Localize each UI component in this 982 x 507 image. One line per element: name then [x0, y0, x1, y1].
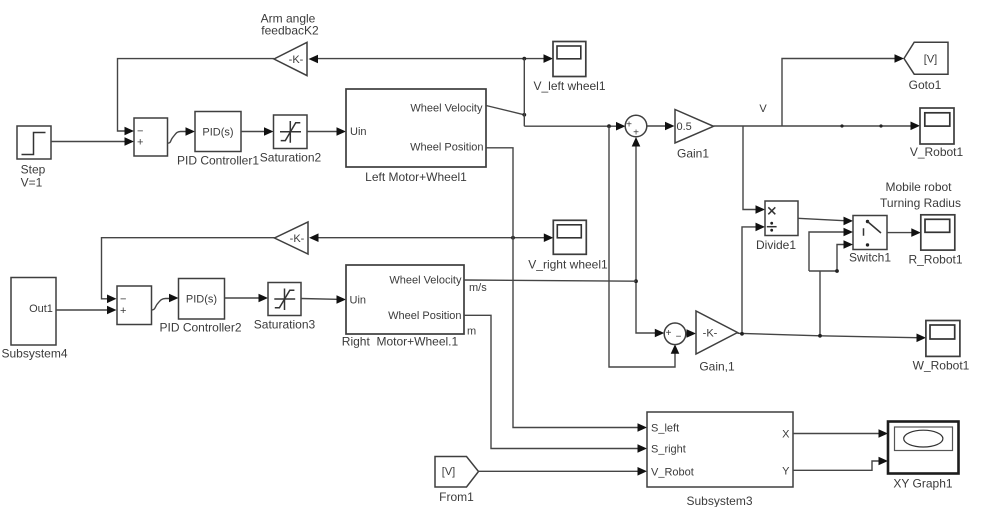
wire W line from Gain,1 to W_Robot1 [738, 333, 918, 337]
svg-text:−: − [676, 332, 682, 343]
step source Step [17, 126, 51, 190]
wire Saturation2 to Left Motor Uin [307, 131, 337, 133]
wire long vertical x609 down to lower sum bottom input [609, 126, 675, 367]
svg-text:Step: Step [21, 163, 46, 177]
gain feedback K3 (right row) [275, 222, 309, 254]
svg-text:[V]: [V] [442, 466, 455, 478]
svg-text:Uin: Uin [350, 295, 367, 307]
arrowhead into Sum2 plus input [107, 306, 117, 315]
arrowhead into gain K3 (pointing left) [309, 233, 319, 242]
svg-text:From1: From1 [439, 490, 474, 504]
svg-text:Wheel Velocity: Wheel Velocity [389, 275, 462, 287]
wire from branch dot to gain K3 [319, 237, 514, 239]
svg-text:−: − [120, 293, 126, 305]
arrowhead into V_Robot1 [911, 122, 921, 131]
wire vertical branch at x524 [523, 59, 525, 127]
wire Sum to Gain1 [647, 125, 665, 127]
svg-text:S_right: S_right [651, 444, 686, 456]
svg-text:Turning Radius: Turning Radius [880, 196, 961, 210]
goto tag Goto1 [904, 42, 948, 92]
wire PID Controller1 to Saturation2 [241, 131, 265, 133]
svg-text:Uin: Uin [350, 126, 367, 138]
subsystem Left Motor+Wheel1 [346, 89, 486, 184]
arrowhead into Sum2 minus input [107, 295, 117, 304]
svg-text:W_Robot1: W_Robot1 [913, 359, 970, 373]
xy graph XY Graph1 [888, 422, 959, 491]
wire V branch up to Goto1 [782, 59, 895, 127]
wire Sum circle bottom input vertical x636 from m/s line [636, 147, 656, 334]
arrowhead into Switch1 input 1 [844, 217, 854, 226]
arrowhead into Gain1 [665, 122, 675, 131]
svg-text:Out1: Out1 [29, 303, 53, 315]
svg-text:Saturation2: Saturation2 [260, 151, 322, 165]
wire Out1 to Sum2 plus input [56, 309, 108, 311]
wire top feedback line from branch dot to gain feedbacK2 [318, 58, 524, 60]
saturation Saturation3 [254, 283, 316, 332]
arrowhead into lower sum circle left input [655, 329, 665, 338]
wire Right Motor Wheel Position down to S_right [464, 315, 638, 448]
wire Wheel Velocity diagonal from Left Motor to branch [486, 106, 524, 115]
arrowhead into S_left [638, 423, 648, 432]
subsystem Subsystem3 [647, 412, 793, 507]
arrowhead up into lower Sum circle bottom [671, 344, 680, 354]
junction dot W at x820 [818, 334, 822, 338]
arrowhead into R_Robot1 [911, 228, 921, 237]
wire branch to V_right wheel1 scope [513, 237, 544, 239]
svg-text:Gain,1: Gain,1 [699, 360, 735, 374]
svg-text:Gain1: Gain1 [677, 147, 709, 161]
arrowhead into Switch1 input 3 [844, 240, 854, 249]
wire From1 to V_Robot input [479, 470, 639, 472]
junction dot m/s meets x636 [634, 279, 638, 283]
arrowhead into Sum circle left input [616, 122, 626, 131]
sum circle Sum3 (W difference) [664, 323, 686, 345]
wire feedback from gain K3 to Sum2 minus input [102, 238, 275, 299]
svg-text:+: + [633, 128, 639, 139]
arrowhead into Sum1 plus input [125, 137, 135, 146]
svg-text:PID(s): PID(s) [186, 293, 217, 305]
wire PID Controller2 to Saturation3 [225, 297, 260, 299]
svg-text:S_left: S_left [651, 423, 679, 435]
wire W branch up to Divide divide input [742, 227, 756, 334]
gain Gain,1 [696, 311, 738, 374]
svg-text:+: + [137, 137, 143, 149]
arrowhead into PID Controller1 [186, 127, 196, 136]
svg-text:XY Graph1: XY Graph1 [893, 477, 952, 491]
from tag From1 [435, 457, 479, 505]
subsystem Subsystem4 [1, 278, 67, 361]
switch Switch1 [849, 216, 891, 265]
junction dot W at x742 [740, 332, 744, 336]
svg-text:X: X [782, 429, 790, 441]
svg-text:-K-: -K- [703, 327, 718, 339]
scope V_right wheel1 [528, 220, 608, 271]
svg-text:PID Controller2: PID Controller2 [159, 321, 241, 335]
sum circle Sum (V average) [625, 115, 647, 138]
wire Sum1 output squiggle to PID Controller1 [168, 132, 187, 144]
svg-text:m/s: m/s [469, 282, 487, 294]
svg-text:+: + [666, 328, 672, 339]
svg-text:Saturation3: Saturation3 [254, 318, 316, 332]
arrowhead into Goto1 [895, 54, 905, 63]
junction dot near switch feed [835, 269, 839, 273]
svg-text:m: m [467, 326, 476, 338]
scope V_left wheel1 [533, 42, 605, 94]
svg-text:Wheel Position: Wheel Position [388, 310, 461, 322]
arrowhead into V_Robot input [638, 467, 648, 476]
PID controller PID Controller1 [177, 112, 259, 168]
junction dot on V line 2 [879, 124, 882, 127]
svg-text:-K-: -K- [289, 54, 304, 66]
scope R_Robot1 [908, 215, 962, 267]
junction dot at x609 [607, 124, 611, 128]
wire Subsystem3 X to XY Graph1 [793, 433, 879, 435]
svg-text:Goto1: Goto1 [909, 78, 942, 92]
arrowhead into Saturation3 [259, 294, 269, 303]
wire Saturation3 to Right Motor Uin [301, 298, 337, 301]
svg-text:V: V [759, 103, 767, 115]
PID controller PID Controller2 [159, 279, 241, 335]
svg-text:+: + [626, 120, 632, 131]
wire Step to Sum1 [51, 141, 125, 143]
wire Divide1 output to Switch1 first input [798, 218, 844, 220]
arrowhead into V_right wheel1 [544, 233, 554, 242]
svg-text:PID Controller1: PID Controller1 [177, 154, 259, 168]
wire Switch1 output to R_Robot1 [887, 232, 912, 234]
svg-text:Wheel Position: Wheel Position [410, 142, 483, 154]
svg-text:Y: Y [782, 465, 790, 477]
wire Sum2 output squiggle to PID Controller2 [152, 299, 170, 311]
wire V line from Gain1 to V_Robot1 [714, 125, 912, 127]
svg-text:feedbacK2: feedbacK2 [261, 24, 319, 38]
svg-text:Subsystem4: Subsystem4 [1, 347, 67, 361]
subsystem Right Motor+Wheel.1 [342, 265, 464, 349]
arrowhead into Gain,1 [687, 329, 697, 338]
svg-text:Switch1: Switch1 [849, 251, 891, 265]
svg-text:[V]: [V] [924, 54, 937, 66]
arrowhead into V_left wheel1 [544, 54, 554, 63]
gain Gain1 value 0.5 [675, 110, 714, 161]
divide block Divide1 [756, 201, 798, 252]
arrowhead into W_Robot1 [917, 334, 927, 343]
saturation Saturation2 [260, 115, 322, 165]
arrowhead into Switch1 input 2 [844, 228, 854, 237]
wire W feed to switch inputs 2 and 3 [809, 232, 844, 336]
svg-text:Divide1: Divide1 [756, 238, 796, 252]
sum block Sum1 (rectangle add) [134, 118, 168, 156]
arrowhead into Divide divide input [756, 223, 766, 232]
svg-text:V_right wheel1: V_right wheel1 [528, 258, 608, 272]
svg-text:Right Motor+Wheel.1: Right Motor+Wheel.1 [342, 335, 459, 349]
scope V_Robot1 [910, 108, 964, 159]
wire Left Motor Wheel Position down to S_left [486, 148, 638, 428]
junction dot wheel velocity branch [522, 113, 526, 117]
svg-text:R_Robot1: R_Robot1 [908, 253, 962, 267]
svg-text:Left Motor+Wheel1: Left Motor+Wheel1 [365, 170, 467, 184]
arrowhead into PID Controller2 [169, 294, 179, 303]
arrowhead into Left Motor Uin [337, 127, 347, 136]
svg-text:Wheel Velocity: Wheel Velocity [410, 103, 483, 115]
svg-text:V_Robot1: V_Robot1 [910, 145, 964, 159]
arrowhead into gain feedbacK2 (pointing left) [309, 55, 319, 64]
svg-text:V_Robot: V_Robot [651, 466, 694, 478]
wire left velocity to Sum circle [524, 125, 616, 127]
arrowhead into XY Graph1 X [879, 429, 889, 438]
wire V branch down to Divide x input [743, 126, 756, 210]
arrowhead into XY Graph1 Y [879, 457, 889, 466]
svg-text:0.5: 0.5 [677, 121, 692, 133]
wire branch to V_left wheel1 scope [524, 58, 544, 60]
wire feedback from gain K2 output down to Sum1 minus input [118, 59, 275, 131]
arrowhead into S_right [638, 444, 648, 453]
arrowhead into Sum1 minus input [125, 127, 135, 136]
junction dot on V line 1 [840, 124, 843, 127]
svg-text:V=1: V=1 [21, 176, 43, 190]
junction dot top feedback branch [522, 57, 526, 61]
svg-text:+: + [120, 305, 126, 317]
arrowhead up into Sum circle bottom [632, 137, 641, 147]
svg-text:Mobile robot: Mobile robot [885, 180, 952, 194]
scope W_Robot1 [913, 321, 970, 373]
svg-text:PID(s): PID(s) [202, 127, 233, 139]
gain Arm angle feedbacK2 [261, 12, 319, 76]
sum block Sum2 (rectangle add) [117, 286, 152, 325]
junction dot on position line [511, 236, 515, 240]
wire Subsystem3 Y to XY Graph1 [793, 461, 879, 470]
svg-text:Subsystem3: Subsystem3 [686, 494, 752, 507]
svg-text:-K-: -K- [290, 233, 305, 245]
wire Sum3 to Gain,1 [686, 333, 687, 335]
svg-text:V_left wheel1: V_left wheel1 [533, 79, 605, 93]
arrowhead into Saturation2 [264, 127, 274, 136]
arrowhead into Right Motor Uin [337, 295, 347, 304]
arrowhead into Divide x input [756, 205, 766, 214]
wire m/s right wheel velocity line [464, 280, 636, 281]
